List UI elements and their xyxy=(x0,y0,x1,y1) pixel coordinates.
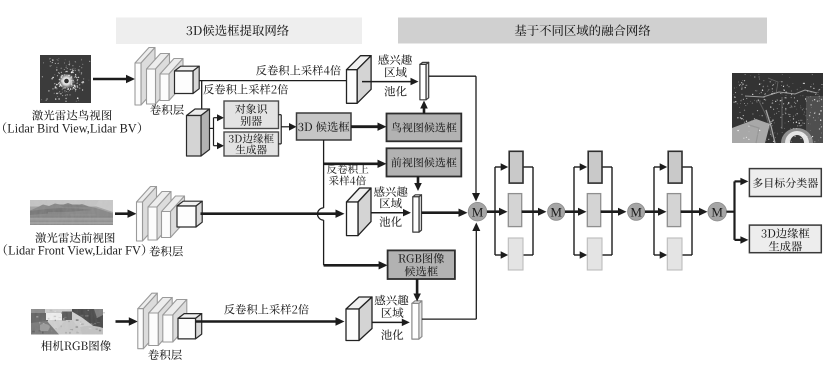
svg-text:反卷积上采样2倍: 反卷积上采样2倍 xyxy=(224,301,309,317)
wire M4 branch to output boxes xyxy=(727,211,735,213)
svg-text:池化: 池化 xyxy=(379,214,402,230)
fusion block group fusion group 3 bracket wires xyxy=(653,167,655,255)
svg-text:M: M xyxy=(711,204,723,219)
arrow image to conv layers row3 xyxy=(116,320,130,323)
fusion node M1 xyxy=(468,202,487,221)
wire conv3 to ROI slab row3 with deconv x2 label xyxy=(196,320,337,323)
svg-text:3D候选框提取网络: 3D候选框提取网络 xyxy=(186,21,290,39)
fusion node M3 xyxy=(628,203,645,220)
wire conv1 to ROI pooling row1 with deconv x4 label xyxy=(199,80,346,82)
header bar: 3D proposal network xyxy=(116,18,362,45)
fusion group 1 bottom layer bar (RGB) xyxy=(508,238,523,270)
svg-text:（Lidar Front View,Lidar FV）: （Lidar Front View,Lidar FV） xyxy=(0,241,153,259)
fusion group 2 middle layer bar (FV) xyxy=(587,194,600,227)
wire branch down to proposal slab xyxy=(201,81,203,114)
arrow RGB candidate box down to bar xyxy=(416,279,419,295)
fusion group 3 bottom layer bar (RGB) xyxy=(667,238,682,270)
svg-text:区域: 区域 xyxy=(379,195,402,211)
fusion node M2 xyxy=(548,203,565,220)
svg-text:卷积层: 卷积层 xyxy=(149,243,184,259)
box 3D box regressor 3D边缘框生成器 xyxy=(749,225,821,253)
svg-text:卷积层: 卷积层 xyxy=(150,102,185,118)
svg-text:（Lidar Bird View,Lidar BV）: （Lidar Bird View,Lidar BV） xyxy=(0,119,149,137)
arrow ROI slab row3 to bar xyxy=(372,321,403,323)
fusion group 2 top layer bar (BV) xyxy=(588,151,602,183)
feature vector bar BV xyxy=(420,62,429,64)
box 3D proposal 3D候选框 xyxy=(297,113,352,140)
arrow 3D proposal to BV candidate box xyxy=(351,125,379,128)
svg-text:多目标分类器: 多目标分类器 xyxy=(752,175,818,191)
feature vector bar RGB xyxy=(412,301,422,304)
svg-text:生成器: 生成器 xyxy=(768,238,803,254)
result point cloud image xyxy=(732,73,823,143)
box RGB candidate RGB图像候选框 xyxy=(388,250,455,279)
feature vector bar FV xyxy=(413,195,422,197)
wire RGB bar to M1 bottom xyxy=(422,318,476,320)
arrow M3 to group3 middle bar xyxy=(645,210,659,213)
svg-text:相机RGB图像: 相机RGB图像 xyxy=(41,338,112,354)
svg-text:反卷积上采样2倍: 反卷积上采样2倍 xyxy=(203,82,288,98)
lidar front view input image xyxy=(30,200,113,225)
svg-text:M: M xyxy=(472,204,484,219)
header bar: region-based fusion network xyxy=(398,18,767,44)
ROI pooling slab row1 xyxy=(347,56,372,70)
svg-text:卷积层: 卷积层 xyxy=(148,347,183,363)
arrow BV candidate box up to bar xyxy=(423,108,426,114)
fusion block group fusion group 2 bracket wires xyxy=(573,167,575,255)
box BV candidate 鸟视图候选框 xyxy=(387,114,462,142)
svg-text:采样4倍: 采样4倍 xyxy=(329,174,367,189)
svg-text:候选框: 候选框 xyxy=(404,263,438,279)
svg-text:反卷积上采样4倍: 反卷积上采样4倍 xyxy=(256,62,341,78)
bracket from slab to classifier and regressor boxes xyxy=(210,127,214,129)
wire 3D proposal down to FV and RGB candidates xyxy=(323,140,325,208)
conv layer stack row 3 xyxy=(138,293,158,309)
fusion group 3 middle layer bar (FV) xyxy=(667,194,680,227)
arrow M2 to group2 middle bar xyxy=(565,210,579,213)
fusion group 1 middle layer bar (FV) xyxy=(508,194,521,227)
svg-text:3D 候选框: 3D 候选框 xyxy=(298,119,351,135)
arrow FV candidate box down to bar xyxy=(417,177,420,185)
box multi-target classifier 多目标分类器 xyxy=(749,169,821,197)
fusion block group fusion group 1 bracket wires xyxy=(494,167,496,255)
svg-text:别器: 别器 xyxy=(240,113,262,129)
fusion group 3 top layer bar (BV) xyxy=(668,151,682,183)
arrow image to conv layers row2 xyxy=(115,212,129,215)
svg-text:M: M xyxy=(550,204,562,219)
arrow to FV candidate box xyxy=(324,163,379,166)
ROI pooling slab row2 xyxy=(347,188,372,202)
svg-text:M: M xyxy=(630,204,642,219)
lidar bird view input image xyxy=(40,55,91,103)
svg-text:区域: 区域 xyxy=(381,305,404,321)
bracket from boxes to 3D proposal box xyxy=(279,114,282,116)
svg-text:鸟视图候选框: 鸟视图候选框 xyxy=(391,120,457,136)
box FV candidate 前视图候选框 xyxy=(387,148,462,176)
svg-text:基于不同区域的融合网络: 基于不同区域的融合网络 xyxy=(514,21,651,39)
arrow group3 to M4 xyxy=(681,210,700,213)
arrow ROI slab to feature bar row1 xyxy=(362,81,412,83)
3d proposal feature slab xyxy=(187,109,210,116)
box object classifier 对象识别器 xyxy=(224,101,279,129)
conv layer stack row 2 xyxy=(137,187,157,203)
svg-text:前视图候选框: 前视图候选框 xyxy=(391,155,457,171)
svg-text:池化: 池化 xyxy=(381,327,404,343)
svg-text:池化: 池化 xyxy=(384,83,407,99)
conv layer stack row 1 xyxy=(135,48,155,64)
ROI pooling slab row3 xyxy=(346,297,372,309)
arrow image to conv layers row1 xyxy=(93,78,127,81)
arrow group2 to M3 xyxy=(601,210,619,213)
arrow to RGB candidate box xyxy=(324,264,380,267)
fusion node M4 xyxy=(708,202,727,221)
wire BV bar to M1 top xyxy=(429,75,476,77)
svg-text:生成器: 生成器 xyxy=(235,143,267,158)
arrow ROI slab row2 to bar xyxy=(371,212,404,214)
arrow M1 to group1 middle bar xyxy=(487,210,500,213)
arrow group1 to M2 xyxy=(522,210,539,213)
camera RGB input image xyxy=(31,309,105,335)
fusion group 1 top layer bar (BV) xyxy=(509,151,523,183)
svg-text:区域: 区域 xyxy=(384,64,407,80)
arrow FV bar to M1 xyxy=(422,211,460,214)
box 3D box generator 3D边缘框生成器 xyxy=(224,132,279,156)
fusion group 2 bottom layer bar (RGB) xyxy=(587,238,602,270)
wire conv2 to ROI slab row2 xyxy=(201,212,337,215)
